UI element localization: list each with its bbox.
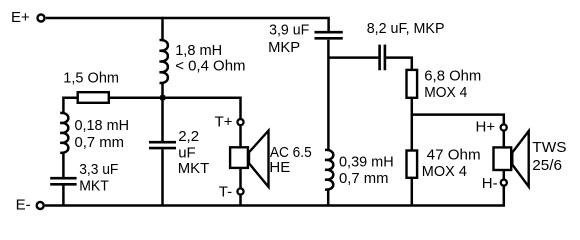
capacitor C2 3,3 uF plates: [50, 178, 76, 184]
svg-text:MOX 4: MOX 4: [424, 84, 467, 101]
wire woofer to T-: [239, 168, 242, 189]
speaker U1 AC 6.5 woofer cone: [249, 131, 269, 187]
resistor R3 47 Ohm: [407, 151, 418, 178]
svg-text:E+: E+: [11, 9, 30, 26]
junction dot node A: [160, 95, 165, 100]
svg-text:T+: T+: [215, 114, 233, 131]
terminal T+: [237, 119, 243, 125]
wire R3 bottom to ground rail: [411, 178, 414, 206]
inductor L3 0,39 mH: [325, 150, 333, 190]
wire C1 bottom through tee down to L3: [327, 40, 330, 151]
terminal T-: [237, 188, 243, 194]
wire C2 bottom to ground rail: [62, 186, 65, 206]
resistor R1 1,5 Ohm: [78, 92, 109, 103]
wire L3 bottom to ground rail: [327, 190, 330, 206]
svg-text:MKT: MKT: [79, 178, 109, 195]
svg-text:3,9 uF: 3,9 uF: [269, 21, 309, 38]
inductor L2 0,18 mH: [60, 113, 68, 153]
svg-text:T-: T-: [219, 184, 232, 201]
svg-text:47 Ohm: 47 Ohm: [427, 147, 481, 164]
wire tee to H+ corner: [412, 115, 504, 124]
wire below L1 to junction: [161, 82, 164, 141]
wire H- down to ground rail corner: [45, 186, 504, 206]
terminal E+: [38, 15, 45, 22]
svg-text:uF: uF: [178, 145, 196, 162]
svg-text:2,2: 2,2: [178, 128, 199, 145]
svg-text:0,7 mm: 0,7 mm: [75, 134, 125, 151]
svg-text:3,3 uF: 3,3 uF: [79, 161, 118, 178]
svg-text:1,5 Ohm: 1,5 Ohm: [63, 70, 119, 87]
capacitor C3 2,2 uF plates: [149, 142, 176, 148]
wire H+ to tweeter: [503, 131, 506, 147]
svg-text:0,18 mH: 0,18 mH: [75, 117, 130, 134]
speaker U1 AC 6.5 woofer body: [230, 147, 248, 168]
capacitor C1 3,9 uF plates: [315, 32, 343, 38]
terminal H+: [501, 124, 507, 130]
wire L2 bottom to C2 top: [62, 152, 65, 177]
wire tweeter to H-: [503, 170, 506, 180]
wire C3 bottom to ground rail: [161, 149, 164, 205]
capacitor C4 8,2 uF plates: [380, 45, 385, 71]
svg-text:25/6: 25/6: [532, 157, 562, 174]
inductor L1 1.8mH: [160, 40, 168, 83]
svg-text:0,7 mm: 0,7 mm: [339, 170, 389, 187]
wire R2 bottom through tee to R3: [411, 98, 414, 151]
terminal E-: [37, 202, 44, 209]
speaker U2 TWS tweeter cone: [512, 131, 528, 187]
wire T- to ground rail: [239, 195, 242, 206]
svg-text:< 0,4 Ohm: < 0,4 Ohm: [175, 58, 245, 75]
svg-text:HE: HE: [269, 159, 290, 176]
svg-text:0,39 mH: 0,39 mH: [339, 153, 394, 170]
svg-text:TWS: TWS: [532, 139, 566, 156]
wire C4 to corner down to R2: [386, 58, 412, 70]
terminal H-: [501, 180, 507, 186]
speaker U2 TWS tweeter body: [494, 147, 512, 170]
resistor R2 6,8 Ohm: [407, 70, 418, 98]
wire top rail from E+ to corner above 3.9uF: [46, 18, 329, 31]
svg-text:H-: H-: [482, 175, 498, 192]
wire tweeter highpass rail left part: [329, 56, 379, 59]
svg-text:MKT: MKT: [178, 160, 210, 177]
svg-text:MOX 4: MOX 4: [422, 163, 467, 180]
svg-text:6,8 Ohm: 6,8 Ohm: [424, 67, 481, 84]
wire 1.8mH branch top lead: [161, 17, 164, 41]
svg-text:E-: E-: [16, 196, 31, 213]
svg-text:1,8 mH: 1,8 mH: [175, 42, 222, 59]
svg-text:8,2 uF, MKP: 8,2 uF, MKP: [367, 20, 445, 37]
wire T+ to woofer: [239, 126, 242, 148]
wire midband rail: left corner, through R1, to T+ branch: [63, 98, 240, 119]
svg-text:H+: H+: [476, 119, 496, 136]
svg-text:MKP: MKP: [268, 39, 300, 56]
